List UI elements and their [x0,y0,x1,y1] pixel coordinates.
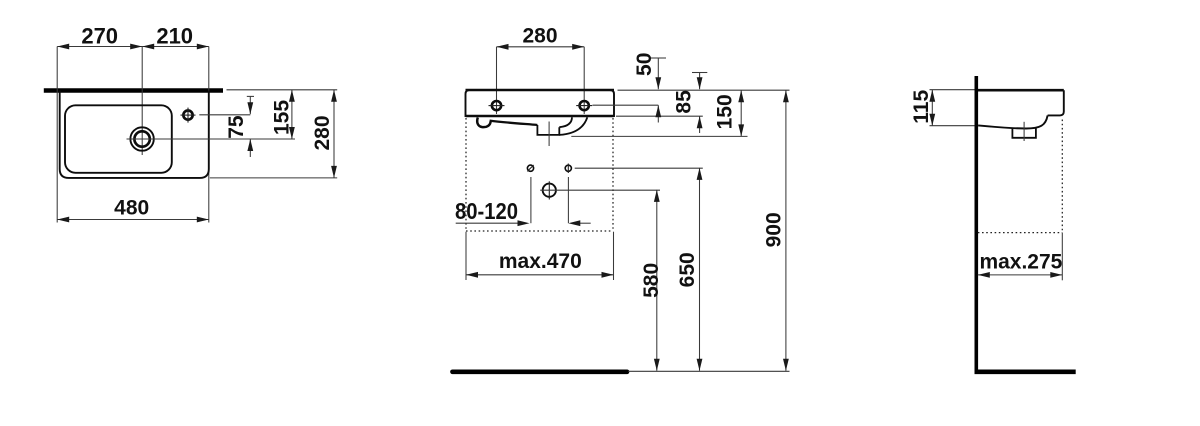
floor thick line [453,369,628,374]
mounting hole left [527,165,533,171]
dim 580 line [656,190,658,371]
dashed horizontal [978,232,1063,234]
arrow dim max275 right [1050,272,1062,278]
arrow dim 150 top [738,90,744,102]
leader outlet to 580 dim [540,189,660,191]
svg-text:75: 75 [225,115,248,139]
faucet symbol right [580,101,589,110]
dim 75 line [249,96,251,114]
svg-text:115: 115 [910,90,933,124]
dashed vertical left [465,118,467,231]
svg-text:280: 280 [522,25,557,48]
faucet leader line [199,114,250,116]
svg-text:650: 650 [676,252,699,287]
dim max.275 line [978,274,1063,276]
body outline [466,90,615,117]
arrow dim 50 top [655,77,661,89]
arrow dim 480 right [197,217,209,223]
top edge extension to 900 [618,89,790,91]
dim 85 line [692,72,707,74]
arrow dim 280 bottom (plan) [331,166,337,178]
floor thin continuation [628,370,789,372]
arrow dim 580 bottom [654,359,660,371]
bowl hook left [477,118,490,128]
basin right edge and bottom [1048,90,1064,115]
centerline through drain [141,47,143,156]
basin outer outline [60,91,209,178]
dim 650 line [699,168,701,371]
dim 900 line [785,90,787,371]
dim 50 line [651,57,667,59]
svg-text:max.470: max.470 [499,250,582,273]
svg-text:210: 210 [156,24,193,49]
svg-text:150: 150 [714,94,737,129]
basin top line [978,89,1064,92]
extension line right x=208.8 [208,47,210,223]
mounting hole right [565,165,571,171]
floor thick [975,369,1076,374]
dashed vertical right [612,118,614,231]
hole centerline left [496,47,498,114]
arrow dim 900 bottom [783,359,789,371]
drain cross + leader to 75/155 dims [127,138,296,140]
hole centerline right [583,47,585,114]
leader from right faucet to 50 dim [593,104,659,106]
bottom extension line right of basin [210,177,337,179]
deck bottom extension to 85 [616,115,703,117]
dim max.470 line [466,274,614,276]
arrow dim max275 left [978,272,990,278]
svg-text:280: 280 [311,115,334,150]
dim 115 line [931,90,933,126]
svg-text:50: 50 [633,53,656,76]
arrow dim 75 bottom [247,139,253,151]
max275 extension [1061,233,1063,280]
arrow dim 210 right [197,44,209,50]
arrow dim 85 top [697,77,703,89]
arrow dim 270 right [130,44,142,50]
dashed horizontal [466,230,613,232]
arrow dim 150 bottom [738,124,744,136]
drain flange rect [537,125,559,135]
arrow dim 85 bottom [697,116,703,128]
dim 150 line [740,90,742,136]
arrow dim 650 top [697,168,703,180]
dim 280 line (left view) [333,90,335,178]
svg-text:80-120: 80-120 [455,198,518,224]
arrow dim 280 top (plan) [331,90,337,102]
svg-text:155: 155 [271,100,294,135]
svg-text:900: 900 [763,212,786,247]
svg-text:580: 580 [640,263,663,298]
trap inner arc [559,117,572,127]
arrow dim 900 top [783,90,789,102]
arrow dim 115 bottom [929,114,935,126]
drain inner circle [134,131,149,146]
dimension line 480 [57,219,209,221]
leader mounting holes to 650 dim [575,167,703,169]
svg-text:max.275: max.275 [979,250,1062,273]
drain outer circle [130,127,153,150]
drain centerline (side) [1023,122,1025,141]
arrow dim 80-120 left [518,220,530,226]
dimension line 280 [497,46,585,48]
basin underside profile [978,115,1048,128]
arrow dim 155 top [289,90,295,102]
arrow dim 50 bottom [655,105,661,117]
svg-text:85: 85 [673,90,696,114]
dim 155 line [291,90,293,139]
arrow dim max470 left [466,272,478,278]
arrow dim 80-120 right [568,220,580,226]
faucet symbol left [492,101,501,110]
svg-text:480: 480 [114,197,149,220]
arrow dim 280 right (front) [572,44,584,50]
max470 extension lines [465,232,467,280]
arrow dim 210 left [142,44,154,50]
dimension line 270/210 [57,46,209,48]
trap bottom extension to 150 [571,135,747,137]
extension line left x=57.2 [56,47,58,223]
arrow dim 480 left [57,217,69,223]
arrow dim 280 left (front) [497,44,509,50]
115 extension lines [930,89,975,91]
arrow dim 580 top [654,190,660,202]
arrow dim 115 top [929,90,935,102]
bowl bottom sloped line [490,121,538,125]
faucet hole symbol [183,111,192,120]
arrow dim 650 bottom [697,359,703,371]
dashed vertical [1061,120,1063,234]
svg-text:270: 270 [81,24,118,49]
arrow dim 270 left [57,44,69,50]
trap outer arc [559,117,587,135]
arrow dim 75 top [247,102,253,114]
drain centerline [548,122,550,147]
wall vertical thick [974,76,978,372]
arrow dim max470 right [602,272,614,278]
body bottom deck line [466,115,614,117]
mounting hole drop lines [530,177,532,223]
dim 80-120 line [456,222,518,224]
drain outlet circle [543,184,556,197]
arrow dim 155 bottom [289,127,295,139]
basin inner bowl [65,105,172,173]
top extension line right of wall [227,89,338,91]
drain flange rect (side) [1012,128,1036,138]
body top line [466,89,615,91]
wall line (thick) [44,88,223,93]
